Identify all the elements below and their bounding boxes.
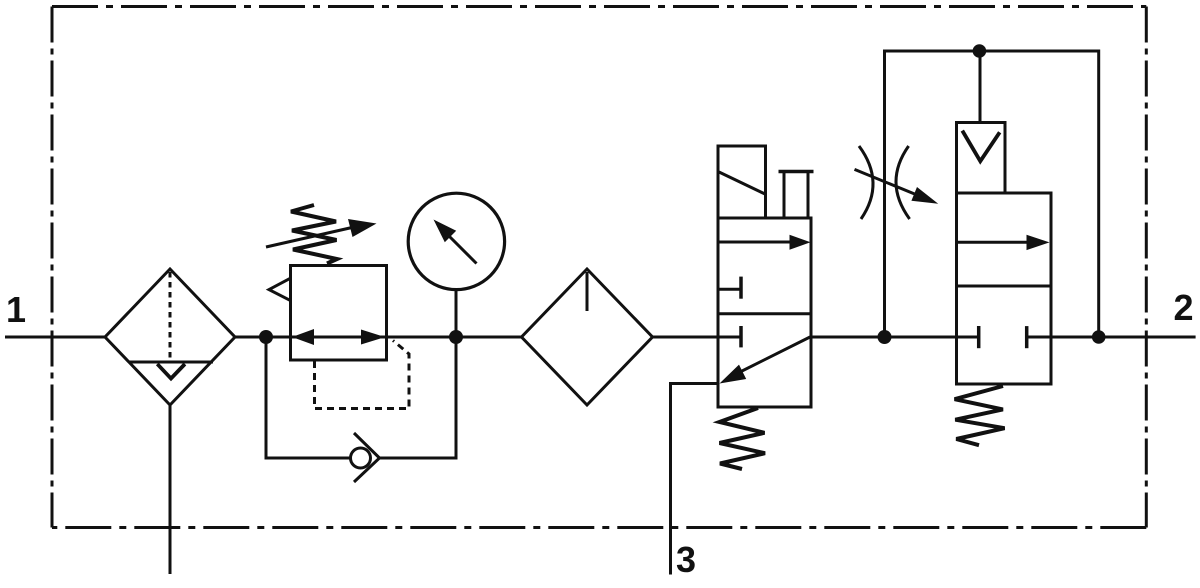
svg-text:1: 1 — [6, 289, 26, 330]
svg-text:3: 3 — [676, 539, 696, 580]
svg-text:2: 2 — [1174, 287, 1194, 328]
